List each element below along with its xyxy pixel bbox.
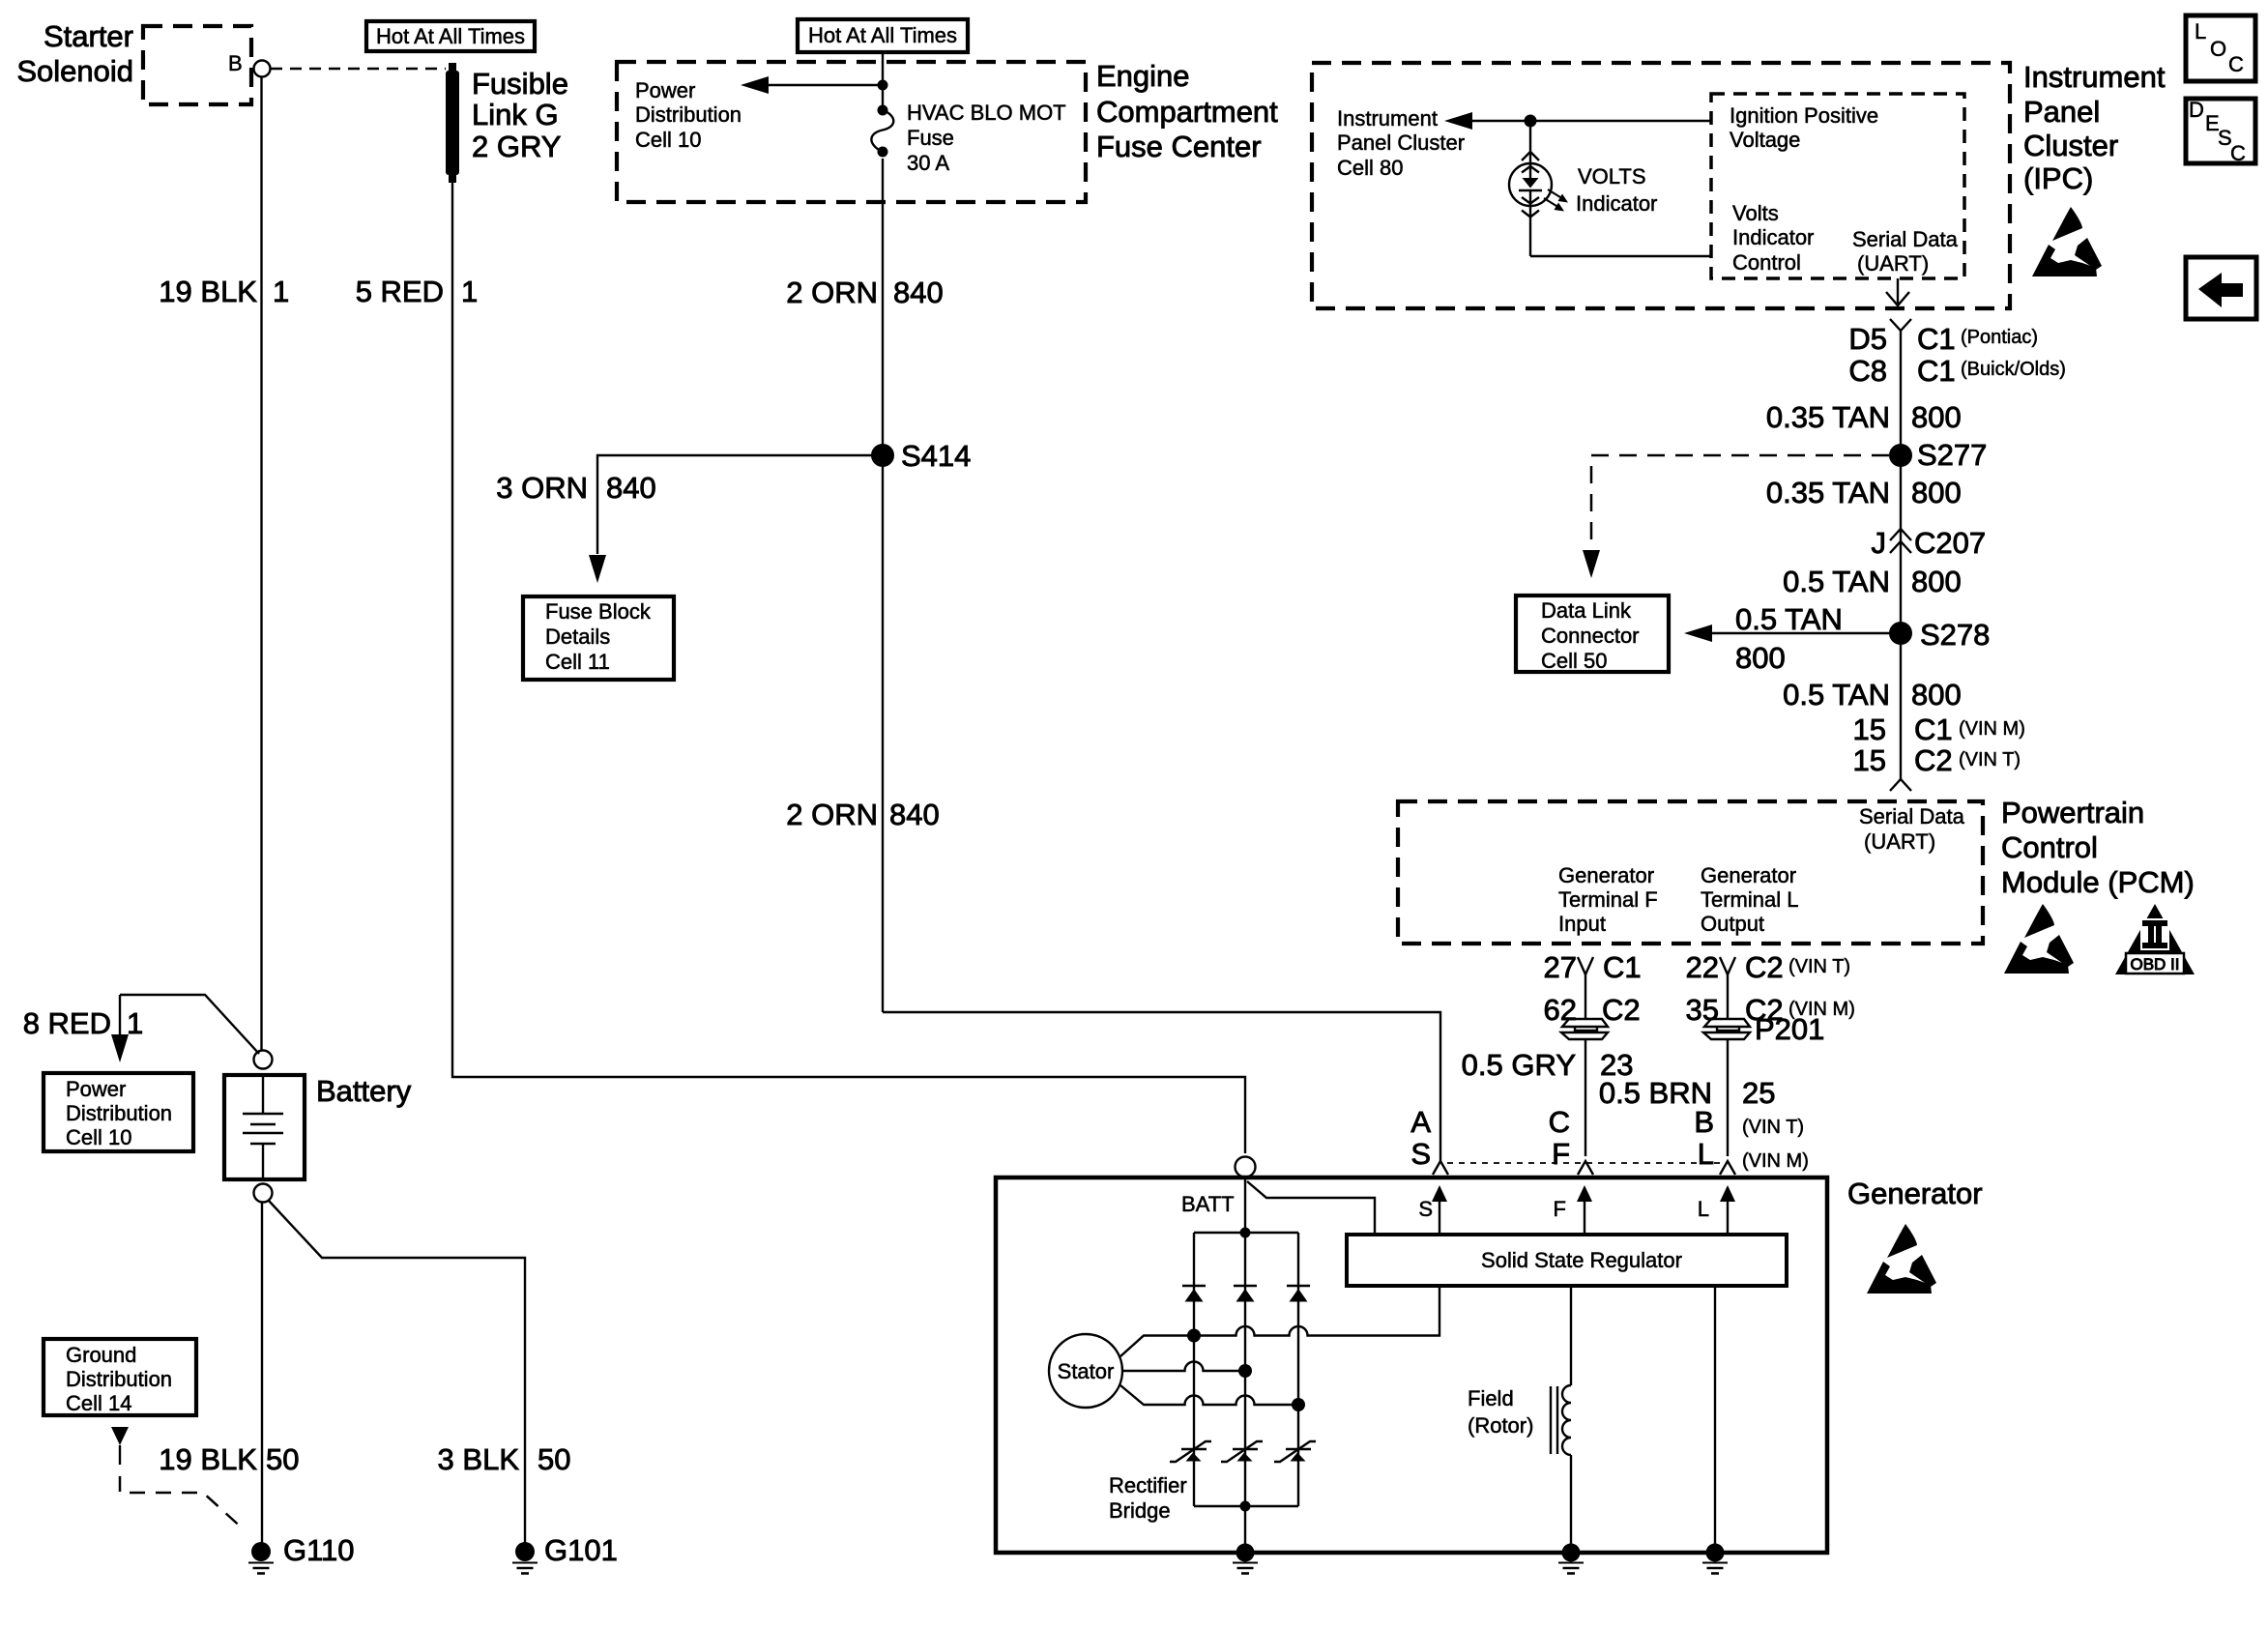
fuse label HVAC BLO MOT Fuse 30 A xyxy=(907,101,1066,175)
svg-text:Bridge: Bridge xyxy=(1109,1498,1171,1523)
field rotor label xyxy=(1468,1386,1533,1438)
wire 2 ORN to generator S pin xyxy=(883,1012,1440,1163)
volts indicator control label xyxy=(1732,201,1814,275)
power distribution cell 10 label top xyxy=(635,78,741,152)
field rotor coil xyxy=(1551,1286,1571,1547)
svg-text:Battery: Battery xyxy=(316,1074,412,1108)
svg-text:Cell 50: Cell 50 xyxy=(1541,649,1607,673)
svg-text:F: F xyxy=(1552,1137,1570,1171)
svg-text:19 BLK: 19 BLK xyxy=(159,275,257,308)
svg-text:B: B xyxy=(1694,1105,1714,1139)
wire from hot box into fuse center xyxy=(882,52,884,110)
serial data UART label PCM xyxy=(1859,804,1965,854)
svg-text:Field: Field xyxy=(1468,1386,1514,1410)
svg-text:Cell 80: Cell 80 xyxy=(1337,156,1403,180)
svg-text:Panel: Panel xyxy=(2023,95,2100,129)
SCR leg 3 xyxy=(1274,1441,1316,1462)
svg-text:L: L xyxy=(1698,1137,1714,1171)
volts indicator label xyxy=(1576,164,1657,216)
svg-text:5 RED: 5 RED xyxy=(356,275,444,308)
pin 15 C2 VIN T labels xyxy=(1853,743,2021,777)
svg-text:25: 25 xyxy=(1742,1076,1775,1110)
arrow into ground distribution box xyxy=(111,1427,129,1465)
label 2 ORN 840 upper xyxy=(786,276,943,309)
8 RED 1 branch wire xyxy=(111,995,259,1062)
DESC box xyxy=(2186,98,2255,165)
svg-text:Serial Data: Serial Data xyxy=(1852,227,1959,251)
svg-text:Distribution: Distribution xyxy=(66,1367,172,1391)
svg-text:C1: C1 xyxy=(1603,950,1642,984)
svg-text:Panel Cluster: Panel Cluster xyxy=(1337,131,1465,155)
wire 2 ORN 840 from fuse down xyxy=(882,159,884,1012)
svg-text:L: L xyxy=(1698,1197,1709,1221)
junction dot at fuse top xyxy=(878,80,888,91)
ESD symbol IPC xyxy=(2032,207,2102,276)
svg-text:0.5 TAN: 0.5 TAN xyxy=(1783,678,1890,712)
generator label xyxy=(1847,1177,1983,1210)
LOC box xyxy=(2186,15,2255,81)
pin 27 C1 labels xyxy=(1544,950,1642,984)
svg-text:0.5 TAN: 0.5 TAN xyxy=(1783,565,1890,598)
Hot At All Times box left xyxy=(366,21,535,51)
ground wire from rectifier xyxy=(1244,1506,1246,1547)
svg-text:Solid State Regulator: Solid State Regulator xyxy=(1481,1248,1682,1272)
wire 0.5 BRN 25 L xyxy=(1599,1039,1776,1156)
battery cells symbol xyxy=(243,1075,283,1179)
svg-text:(Pontiac): (Pontiac) xyxy=(1961,327,2038,348)
pin letters C F xyxy=(1549,1105,1570,1171)
svg-text:Powertrain: Powertrain xyxy=(2001,796,2144,829)
pin 62 C2 labels xyxy=(1544,993,1641,1027)
BATT wire into rectifier xyxy=(1244,1177,1246,1233)
rectifier bottom rail xyxy=(1194,1501,1298,1512)
label 0.5 TAN 800 lower xyxy=(1783,678,1962,712)
svg-text:C8: C8 xyxy=(1848,354,1887,388)
svg-text:Distribution: Distribution xyxy=(66,1101,172,1125)
battery positive terminal circle xyxy=(254,1051,273,1069)
svg-text:2 ORN: 2 ORN xyxy=(786,276,878,309)
svg-text:19 BLK: 19 BLK xyxy=(159,1442,257,1476)
connector C207 chevrons xyxy=(1872,526,1987,560)
svg-text:2 GRY: 2 GRY xyxy=(472,130,561,163)
svg-text:C: C xyxy=(1549,1105,1570,1139)
data link connector cell 50 box xyxy=(1516,596,1669,673)
svg-text:D: D xyxy=(2189,98,2204,122)
wire 5 RED 1 from fusible link down xyxy=(452,183,1245,1153)
svg-text:Details: Details xyxy=(545,625,610,649)
svg-text:(VIN T): (VIN T) xyxy=(1742,1117,1804,1138)
battery label xyxy=(316,1074,412,1108)
svg-text:Connector: Connector xyxy=(1541,624,1640,648)
label 8 RED 1 xyxy=(23,1006,144,1040)
serial data wire top Y xyxy=(1890,319,1911,779)
label 3 BLK 50 xyxy=(438,1442,571,1476)
svg-text:S: S xyxy=(1410,1137,1431,1171)
svg-text:Cell 11: Cell 11 xyxy=(545,650,610,674)
svg-text:Terminal L: Terminal L xyxy=(1701,887,1798,912)
svg-text:(VIN T): (VIN T) xyxy=(1959,749,2021,770)
svg-text:Control: Control xyxy=(2001,830,2098,864)
svg-text:Serial Data: Serial Data xyxy=(1859,804,1965,829)
battery negative terminal circle xyxy=(254,1184,273,1203)
label 0.35 TAN 800 upper xyxy=(1766,400,1962,434)
pin letters A S xyxy=(1410,1105,1431,1171)
internal wire BATT to regulator xyxy=(1247,1181,1375,1233)
svg-text:1: 1 xyxy=(273,275,289,308)
Hot At All Times box middle xyxy=(798,19,968,52)
svg-text:J: J xyxy=(1872,526,1887,560)
wire 19 BLK 1 from solenoid B down to battery xyxy=(260,77,262,1052)
svg-text:Stator: Stator xyxy=(1058,1359,1115,1383)
wire battery negative to G110 xyxy=(261,1203,263,1545)
svg-text:Power: Power xyxy=(66,1077,126,1101)
starter solenoid label xyxy=(16,19,133,88)
svg-text:C207: C207 xyxy=(1914,526,1986,560)
BATT label xyxy=(1181,1192,1235,1216)
junction dot at LED top xyxy=(1525,115,1537,128)
label 0.5 TAN 800 upper xyxy=(1783,565,1962,598)
generator internal ground 2 xyxy=(1558,1544,1584,1574)
wire dashed from solenoid B to fusible link xyxy=(271,68,446,71)
svg-text:Hot At All Times: Hot At All Times xyxy=(808,23,957,47)
label 2 ORN 840 lower xyxy=(786,798,939,831)
svg-text:Power: Power xyxy=(635,78,695,102)
PCM pin wire L: Y at box xyxy=(1720,957,1735,1018)
svg-text:Input: Input xyxy=(1558,912,1606,936)
ignition positive voltage label xyxy=(1730,103,1878,152)
generator internal ground 1 xyxy=(1233,1544,1258,1574)
serial data down arrow xyxy=(1886,278,1909,305)
svg-text:(IPC): (IPC) xyxy=(2023,161,2093,195)
svg-text:Generator: Generator xyxy=(1701,863,1796,887)
solid state regulator box xyxy=(1347,1235,1787,1286)
pin letters B L xyxy=(1694,1105,1714,1171)
svg-text:Indicator: Indicator xyxy=(1576,191,1657,216)
svg-text:Control: Control xyxy=(1732,250,1801,275)
pin 22 C2 VIN T labels xyxy=(1686,950,1851,984)
svg-text:Instrument: Instrument xyxy=(1337,106,1438,131)
svg-text:A: A xyxy=(1410,1105,1431,1139)
svg-text:Starter: Starter xyxy=(44,19,133,53)
rectifier leg 1 with diode xyxy=(1182,1233,1206,1506)
splice S277 xyxy=(1889,438,1987,472)
svg-text:Indicator: Indicator xyxy=(1732,225,1814,249)
fuse block details cell 11 box xyxy=(523,596,674,680)
svg-text:800: 800 xyxy=(1911,678,1962,712)
rectifier leg 3 with diode xyxy=(1287,1233,1310,1506)
svg-text:G110: G110 xyxy=(283,1533,355,1567)
svg-text:30 A: 30 A xyxy=(907,151,949,175)
svg-text:Terminal F: Terminal F xyxy=(1558,887,1658,912)
svg-text:C: C xyxy=(2230,141,2246,165)
generator connector interface Y splits and dotted line xyxy=(1433,1161,1735,1175)
svg-text:Hot At All Times: Hot At All Times xyxy=(376,24,525,48)
svg-text:C: C xyxy=(2228,52,2244,76)
ESD symbol generator xyxy=(1867,1224,1936,1294)
splice S278 xyxy=(1889,618,1990,652)
svg-text:Output: Output xyxy=(1701,912,1764,936)
svg-text:840: 840 xyxy=(893,276,944,309)
svg-text:0.35 TAN: 0.35 TAN xyxy=(1766,476,1890,509)
svg-text:S277: S277 xyxy=(1917,438,1987,472)
PCM pin wire F: Y at box xyxy=(1578,957,1593,1018)
splice S414 xyxy=(871,439,971,473)
svg-text:50: 50 xyxy=(538,1442,570,1476)
battery box xyxy=(224,1075,305,1179)
svg-text:Link G: Link G xyxy=(472,98,559,131)
wire 0.5 GRY 23 F xyxy=(1462,1039,1634,1156)
svg-text:8 RED: 8 RED xyxy=(23,1006,111,1040)
svg-text:S: S xyxy=(1418,1197,1433,1221)
label 3 ORN 840 xyxy=(496,471,655,505)
stator phase wire 3 xyxy=(1120,1385,1305,1411)
svg-text:OBD II: OBD II xyxy=(2130,955,2179,974)
svg-text:(Rotor): (Rotor) xyxy=(1468,1413,1533,1438)
SCR leg 2 xyxy=(1221,1441,1263,1462)
OBD II symbol xyxy=(2115,904,2195,974)
svg-text:Distribution: Distribution xyxy=(635,102,741,127)
power distribution cell 10 box bottom xyxy=(44,1073,193,1151)
pin B label xyxy=(228,51,243,75)
svg-text:Cell 10: Cell 10 xyxy=(635,128,701,152)
node B terminal circle xyxy=(254,61,271,77)
label 19 BLK 50 xyxy=(159,1442,299,1476)
svg-text:Ground: Ground xyxy=(66,1343,136,1367)
svg-text:C1: C1 xyxy=(1914,712,1953,746)
pin 15 C1 VIN M labels xyxy=(1853,712,2025,746)
ground G110 xyxy=(248,1533,355,1574)
ESD symbol PCM xyxy=(2004,904,2074,974)
serial data UART label IPC xyxy=(1852,227,1959,276)
wire 3 ORN 840 branch to fuse block details xyxy=(589,455,883,583)
svg-text:Cell 10: Cell 10 xyxy=(66,1125,131,1149)
fusible link label xyxy=(472,67,568,163)
svg-text:0.5 GRY: 0.5 GRY xyxy=(1462,1048,1576,1082)
svg-text:Volts: Volts xyxy=(1732,201,1779,225)
engine compartment fuse center label xyxy=(1096,59,1278,163)
L wire inside generator xyxy=(1714,1286,1716,1547)
fusible link G element xyxy=(446,63,459,183)
svg-text:C1: C1 xyxy=(1917,322,1956,356)
generator internal ground 3 xyxy=(1702,1544,1728,1574)
svg-text:P201: P201 xyxy=(1755,1012,1824,1046)
pin C8 C1 BuickOlds labels xyxy=(1848,354,2066,388)
svg-text:S278: S278 xyxy=(1920,618,1990,652)
serial data wire bottom Y xyxy=(1890,779,1911,791)
fuse HVAC BLO MOT 30A xyxy=(871,105,893,158)
PCM dashed box xyxy=(1398,801,1983,944)
svg-text:Fusible: Fusible xyxy=(472,67,568,101)
back arrow box xyxy=(2186,257,2256,319)
arrow to power distribution xyxy=(741,76,883,94)
generator terminal F input label xyxy=(1558,863,1658,936)
ground G101 xyxy=(512,1533,618,1574)
F arrow inside generator xyxy=(1554,1185,1592,1235)
svg-text:G101: G101 xyxy=(544,1533,618,1567)
svg-text:(UART): (UART) xyxy=(1864,829,1935,854)
svg-text:2 ORN: 2 ORN xyxy=(786,798,878,831)
svg-text:C1: C1 xyxy=(1917,354,1956,388)
svg-text:22: 22 xyxy=(1686,950,1719,984)
inline connector on F wire xyxy=(1561,1019,1608,1039)
engine compartment fuse center dashed box xyxy=(617,62,1086,202)
svg-text:35: 35 xyxy=(1686,993,1719,1027)
label 0.5 TAN 800 arrow xyxy=(1735,602,1843,675)
svg-text:VOLTS: VOLTS xyxy=(1578,164,1646,189)
svg-text:L: L xyxy=(2195,19,2206,44)
svg-text:Compartment: Compartment xyxy=(1096,95,1278,129)
wire arrow from S278 to data link connector xyxy=(1684,625,1901,642)
svg-text:HVAC BLO MOT: HVAC BLO MOT xyxy=(907,101,1066,125)
VIN T VIN M labels at generator pins xyxy=(1742,1117,1809,1172)
svg-text:800: 800 xyxy=(1911,565,1962,598)
arrow to instrument panel cluster xyxy=(1444,112,1711,130)
svg-text:O: O xyxy=(2210,37,2226,61)
volts indicator LED xyxy=(1509,121,1711,256)
label 5 RED 1 xyxy=(356,275,479,308)
svg-text:0.5 TAN: 0.5 TAN xyxy=(1735,602,1843,636)
svg-text:Ignition Positive: Ignition Positive xyxy=(1730,103,1878,128)
svg-text:15: 15 xyxy=(1853,712,1886,746)
starter solenoid dashed box xyxy=(143,26,251,104)
powertrain control module label xyxy=(2001,796,2195,899)
svg-text:B: B xyxy=(228,51,243,75)
svg-text:Instrument: Instrument xyxy=(2023,60,2166,94)
svg-text:Fuse Block: Fuse Block xyxy=(545,599,652,624)
rectifier bridge label xyxy=(1109,1473,1187,1523)
svg-text:(VIN T): (VIN T) xyxy=(1788,956,1850,977)
ground distribution cell 14 box xyxy=(44,1339,196,1415)
instrument panel cluster IPC label xyxy=(2023,60,2166,195)
S arrow inside generator xyxy=(1418,1185,1447,1235)
pin D5 C1 Pontiac labels xyxy=(1848,322,2038,356)
svg-text:Solenoid: Solenoid xyxy=(16,54,133,88)
svg-text:Module (PCM): Module (PCM) xyxy=(2001,865,2195,899)
instrument panel cluster cell 80 label xyxy=(1337,106,1465,180)
svg-text:840: 840 xyxy=(889,798,940,831)
svg-text:27: 27 xyxy=(1544,950,1577,984)
svg-text:Data Link: Data Link xyxy=(1541,598,1632,623)
svg-text:Cell 14: Cell 14 xyxy=(66,1391,131,1415)
svg-text:Voltage: Voltage xyxy=(1730,128,1800,152)
dashed branch from S277 to DLC arrow xyxy=(1583,455,1889,578)
svg-text:(VIN M): (VIN M) xyxy=(1959,718,2025,740)
svg-text:800: 800 xyxy=(1911,400,1962,434)
svg-text:C2: C2 xyxy=(1914,743,1953,777)
svg-text:Engine: Engine xyxy=(1096,59,1190,93)
IPC inner dashed box xyxy=(1711,94,1964,278)
svg-text:1: 1 xyxy=(461,275,478,308)
rectifier leg 2 with diode xyxy=(1234,1233,1257,1506)
svg-text:Generator: Generator xyxy=(1847,1177,1983,1210)
rectifier top rail xyxy=(1194,1228,1298,1238)
SCR leg 1 xyxy=(1170,1441,1211,1462)
svg-text:Rectifier: Rectifier xyxy=(1109,1473,1187,1497)
svg-text:(UART): (UART) xyxy=(1857,251,1929,276)
svg-text:1: 1 xyxy=(127,1006,143,1040)
stator phase wire 2 xyxy=(1122,1362,1252,1379)
generator terminal L output label xyxy=(1701,863,1798,936)
svg-text:(Buick/Olds): (Buick/Olds) xyxy=(1961,359,2066,380)
svg-text:Fuse Center: Fuse Center xyxy=(1096,130,1262,163)
inline connector P201 on L wire xyxy=(1703,1012,1824,1046)
svg-text:3 BLK: 3 BLK xyxy=(438,1442,520,1476)
svg-text:C2: C2 xyxy=(1602,993,1641,1027)
svg-text:S414: S414 xyxy=(901,439,971,473)
svg-text:BATT: BATT xyxy=(1181,1192,1235,1216)
label 19 BLK 1 xyxy=(159,275,289,308)
svg-text:3 ORN: 3 ORN xyxy=(496,471,588,505)
label 0.35 TAN 800 lower xyxy=(1766,476,1962,509)
svg-text:50: 50 xyxy=(266,1442,299,1476)
svg-text:Fuse: Fuse xyxy=(907,126,954,150)
svg-text:C2: C2 xyxy=(1745,950,1784,984)
BATT terminal circle xyxy=(1236,1157,1256,1177)
svg-text:D5: D5 xyxy=(1848,322,1887,356)
svg-text:0.35 TAN: 0.35 TAN xyxy=(1766,400,1890,434)
IPC dashed box xyxy=(1312,63,2010,308)
svg-text:800: 800 xyxy=(1911,476,1962,509)
svg-text:F: F xyxy=(1554,1197,1566,1221)
svg-text:Cluster: Cluster xyxy=(2023,129,2118,162)
dashed wire to ground distribution xyxy=(120,1476,245,1530)
stator phase wire 1 to S sense xyxy=(1120,1286,1439,1356)
wire battery negative to G101 xyxy=(269,1201,525,1545)
svg-text:(VIN M): (VIN M) xyxy=(1742,1150,1809,1172)
svg-text:800: 800 xyxy=(1735,641,1786,675)
pin 35 C2 VIN M labels xyxy=(1686,993,1855,1027)
stator circle xyxy=(1049,1334,1122,1408)
svg-text:62: 62 xyxy=(1544,993,1577,1027)
L arrow inside generator xyxy=(1698,1185,1735,1235)
svg-text:15: 15 xyxy=(1853,743,1886,777)
generator box xyxy=(996,1177,1827,1553)
svg-text:840: 840 xyxy=(606,471,656,505)
svg-text:Generator: Generator xyxy=(1558,863,1654,887)
